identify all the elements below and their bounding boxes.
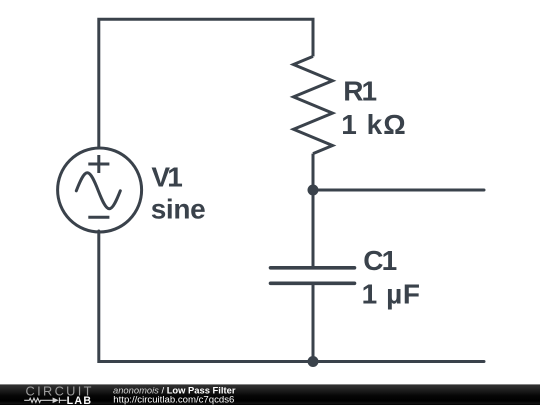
wire: V1 bottom to node B to right end (bottom rail) [99, 231, 484, 362]
svg-text:1 kΩ: 1 kΩ [341, 109, 406, 140]
svg-text:R1: R1 [343, 76, 376, 107]
V1 minus sign [88, 216, 109, 219]
svg-text:sine: sine [151, 193, 206, 224]
capacitor C1 top plate [271, 266, 355, 270]
V1 plus sign [88, 155, 109, 173]
wire: V1 top to R1 top (left rail, top rail, right rail upper) [99, 19, 313, 148]
wire: R1 bottom to node A [312, 154, 315, 190]
svg-text:LAB: LAB [67, 395, 93, 405]
resistor R1 [294, 56, 333, 153]
wire: node A to C1 top [312, 190, 315, 268]
logo diode triangle [53, 398, 59, 404]
svg-text:1 µF: 1 µF [362, 279, 421, 310]
svg-text:V1: V1 [151, 162, 182, 193]
node A (junction dot) [308, 185, 319, 196]
capacitor C1 bottom plate [271, 281, 355, 285]
wire: C1 bottom to node B [312, 284, 315, 362]
voltage source V1 circle [58, 148, 142, 232]
logo resistor-diode glyph [24, 398, 66, 404]
svg-text:http://circuitlab.com/c7qcds6: http://circuitlab.com/c7qcds6 [113, 394, 234, 405]
V1 sine waveform [76, 173, 120, 209]
node B (junction dot) [308, 356, 319, 367]
svg-text:C1: C1 [363, 245, 396, 276]
wire: node A to output (right) [313, 189, 484, 192]
